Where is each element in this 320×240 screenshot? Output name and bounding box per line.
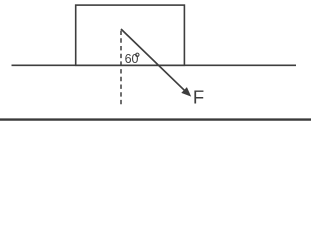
surface line bbox=[12, 64, 297, 66]
svg-text:F: F bbox=[193, 87, 204, 108]
dashed vertical reference line bbox=[120, 31, 122, 105]
degree mark bbox=[136, 53, 139, 56]
block (rectangle on surface) bbox=[76, 5, 185, 65]
bottom border band bbox=[0, 118, 311, 120]
svg-text:60: 60 bbox=[125, 52, 139, 66]
force vector F arrowhead bbox=[181, 87, 191, 97]
force vector F shaft bbox=[121, 29, 187, 93]
